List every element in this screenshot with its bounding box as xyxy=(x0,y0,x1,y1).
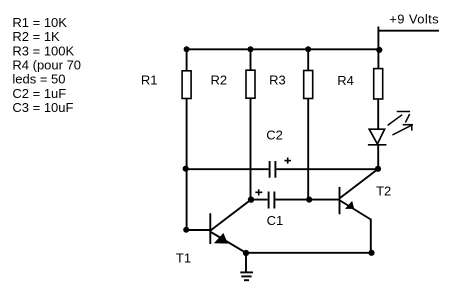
svg-text:R4 (pour 70: R4 (pour 70 xyxy=(12,58,81,73)
svg-text:C3 = 10uF: C3 = 10uF xyxy=(12,100,73,115)
svg-text:R1 = 10K: R1 = 10K xyxy=(12,15,67,30)
svg-text:T2: T2 xyxy=(376,183,391,198)
svg-text:C2: C2 xyxy=(266,128,283,143)
svg-text:R3: R3 xyxy=(269,72,286,87)
svg-text:C1: C1 xyxy=(267,213,284,228)
svg-text:R2: R2 xyxy=(211,72,228,87)
svg-text:leds = 50: leds = 50 xyxy=(12,72,65,87)
svg-text:T1: T1 xyxy=(176,251,191,266)
svg-text:R2 = 1K: R2 = 1K xyxy=(12,29,60,44)
svg-text:R3 = 100K: R3 = 100K xyxy=(12,43,74,58)
svg-text:C2 = 1uF: C2 = 1uF xyxy=(12,86,66,101)
svg-text:+9 Volts: +9 Volts xyxy=(389,11,439,26)
svg-text:R1: R1 xyxy=(141,73,158,88)
svg-text:R4: R4 xyxy=(337,73,354,88)
